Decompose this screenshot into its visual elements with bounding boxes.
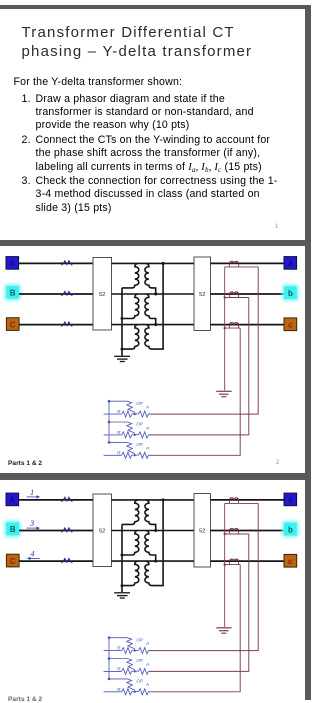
wire relay row a s3 — [104, 650, 122, 652]
wire phase C left s2 — [19, 324, 93, 326]
slide frame top bar — [0, 5, 311, 9]
wire relay OP stub b s3 — [109, 658, 127, 660]
svg-text:OP: OP — [136, 401, 142, 406]
terminal B bus s2 — [4, 284, 21, 301]
CT wye-side phase A s3 — [62, 497, 73, 502]
svg-text:R: R — [117, 450, 121, 456]
slide 2 page number — [276, 460, 279, 466]
terminal C bus s3 — [6, 554, 19, 567]
wire phase b right s3 — [211, 530, 285, 532]
svg-text:R: R — [146, 446, 149, 451]
wire phase a right s3 — [211, 499, 285, 501]
node relay OP bus a s2 — [108, 400, 111, 403]
wire CT b lead to relay s3 — [150, 534, 249, 671]
restraint coil R right a s3 — [138, 648, 150, 654]
svg-text:A: A — [9, 496, 15, 505]
terminal b bus s2 — [282, 284, 299, 301]
terminal b bus s3 — [282, 521, 299, 538]
wire arrow current 4 (reversed) — [27, 557, 40, 560]
CT wye-side phase C s2 — [62, 322, 73, 327]
wire phase C middle s3 — [112, 560, 195, 562]
winding wye phase C s3 — [122, 561, 139, 586]
operate coil OP c s3 — [127, 679, 135, 692]
wire phase A left s3 — [19, 499, 93, 501]
restraint coil R right b s3 — [138, 668, 150, 674]
svg-text:c: c — [288, 557, 293, 566]
ground wye neutral s3 — [114, 593, 130, 598]
wire phase A left s2 — [19, 262, 93, 264]
svg-text:OP: OP — [136, 442, 142, 447]
node CT common c junction s2 — [224, 327, 226, 329]
svg-text:R: R — [146, 641, 149, 646]
node wye neutral B junction s2 — [121, 317, 124, 320]
restraint coil R left b s3 — [122, 668, 132, 674]
slide 1 item 3 — [22, 175, 31, 188]
wire CT c lead to relay s2 — [150, 328, 241, 455]
node relay OP bus a s3 — [108, 636, 111, 639]
ground wye neutral s2 — [114, 356, 130, 361]
wire CT common return s2 — [224, 267, 226, 391]
wire CT common return s3 — [224, 503, 226, 627]
wire relay row b s2 — [104, 434, 122, 436]
wire CT a lead to relay s2 — [150, 267, 259, 414]
wire relay row mid b s3 — [132, 670, 139, 672]
winding wye phase A s2 — [122, 263, 139, 288]
wire arrow current 1 — [27, 495, 40, 498]
wire CT a lead to relay s3 — [150, 503, 259, 650]
wire relay OP stub c s3 — [109, 678, 127, 680]
node delta c-A junction s3 — [162, 498, 165, 501]
slide frame bar between slide 2 and 3 — [0, 473, 311, 479]
node delta a-b junction s2 — [154, 293, 157, 296]
node wye neutral C junction s2 — [121, 348, 124, 351]
winding delta c (C-A) s2 — [145, 263, 163, 349]
svg-text:52: 52 — [199, 529, 205, 535]
wire relay row b s3 — [104, 670, 122, 672]
svg-text:R: R — [117, 646, 121, 652]
svg-text:c: c — [288, 321, 293, 330]
slide frame right bar — [305, 5, 311, 700]
node relay OP bus c s3 — [108, 678, 111, 681]
wire relay OP bus s3 — [108, 638, 110, 679]
CT wye-side phase B s2 — [62, 291, 73, 296]
wire phase c right s3 — [211, 560, 285, 562]
svg-text:R: R — [117, 666, 121, 672]
svg-text:3: 3 — [29, 518, 34, 528]
slide 3 caption sliver — [8, 696, 42, 703]
node relay OP bus b s2 — [108, 421, 111, 424]
wire CT b lead to relay s2 — [150, 298, 249, 435]
wire CT a secondary shoulder s3 — [225, 501, 259, 504]
slide 1 page number — [275, 224, 278, 230]
wire relay row mid a s2 — [132, 413, 139, 415]
restraint coil R right b s2 — [138, 432, 150, 438]
restraint coil R left a s3 — [122, 648, 132, 654]
svg-text:OP: OP — [136, 422, 142, 427]
svg-text:OP: OP — [136, 658, 142, 663]
svg-text:R: R — [146, 405, 149, 410]
node relay OP bus b s3 — [108, 657, 111, 660]
CT delta-side phase a s2 — [229, 261, 238, 263]
svg-text:52: 52 — [199, 292, 205, 298]
wire relay row mid b s2 — [132, 434, 139, 436]
node relay OP tap a s2 — [134, 413, 136, 415]
operate coil OP b s3 — [127, 659, 135, 672]
ground CT common s3 — [216, 628, 231, 633]
wire relay row a s2 — [104, 413, 122, 415]
wire phase a right s2 — [211, 262, 285, 264]
wire CT b secondary shoulder s2 — [225, 295, 249, 298]
wire CT a secondary shoulder s2 — [225, 264, 259, 267]
wire relay row mid c s2 — [132, 454, 139, 456]
node delta a-b junction s3 — [154, 529, 157, 532]
svg-text:OP: OP — [136, 679, 142, 684]
wire relay OP stub a s2 — [109, 400, 127, 402]
operate coil OP b s2 — [127, 422, 135, 435]
wire phase A middle s3 — [112, 499, 195, 501]
CT delta-side phase b s3 — [229, 528, 238, 530]
CT delta-side phase c s3 — [229, 559, 238, 561]
CT delta-side phase c s2 — [229, 323, 238, 325]
svg-text:R: R — [146, 425, 149, 430]
node relay OP tap b s3 — [134, 670, 136, 672]
restraint coil R left c s2 — [122, 452, 132, 458]
breaker 52 right s3 — [194, 494, 211, 568]
wire CT c lead to relay s3 — [150, 565, 241, 692]
restraint coil R left b s2 — [122, 432, 132, 438]
operate coil OP c s2 — [127, 442, 135, 455]
svg-text:R: R — [117, 687, 121, 693]
CT wye-side phase B s3 — [62, 528, 73, 533]
CT delta-side phase a s3 — [229, 498, 238, 500]
restraint coil R left c s3 — [122, 689, 132, 695]
ground CT common s2 — [216, 391, 231, 396]
svg-text:B: B — [10, 289, 16, 298]
winding wye phase A s3 — [122, 500, 139, 525]
node relay OP tap c s3 — [134, 691, 136, 693]
wire phase A middle s2 — [112, 262, 195, 264]
restraint coil R right c s2 — [138, 452, 150, 458]
wire phase C middle s2 — [112, 324, 195, 326]
winding wye phase B s2 — [122, 294, 139, 319]
node relay OP tap b s2 — [134, 434, 136, 436]
svg-text:52: 52 — [99, 292, 105, 298]
wire CT b secondary shoulder s3 — [225, 531, 249, 534]
operate coil OP a s3 — [127, 638, 135, 651]
slide 1 intro line — [14, 76, 183, 89]
winding wye phase B s3 — [122, 531, 139, 556]
wire wye neutral s3 — [121, 524, 123, 592]
terminal a bus s2 — [284, 257, 297, 270]
svg-text:R: R — [146, 682, 149, 687]
slide 2 caption — [8, 460, 42, 467]
node relay OP tap a s3 — [134, 650, 136, 652]
wire relay row c s3 — [104, 691, 122, 693]
svg-text:R: R — [117, 409, 121, 415]
breaker 52 left s2 — [93, 258, 112, 331]
operate coil OP a s2 — [127, 401, 135, 414]
restraint coil R right a s2 — [138, 411, 150, 417]
wire phase B middle s2 — [112, 293, 195, 295]
node CT common b junction s2 — [224, 296, 226, 298]
node delta b-c junction s2 — [154, 323, 157, 326]
terminal A bus s3 — [6, 493, 19, 506]
CT delta-side phase b s2 — [229, 292, 238, 294]
node wye neutral C junction s3 — [121, 584, 124, 587]
svg-text:OP: OP — [136, 637, 142, 642]
breaker 52 right s2 — [194, 257, 211, 331]
svg-text:b: b — [288, 525, 293, 534]
slide frame bar between slide 1 and 2 — [0, 240, 311, 246]
svg-text:a: a — [288, 496, 293, 505]
wire wye neutral s2 — [121, 288, 123, 356]
node relay OP bus c s2 — [108, 441, 111, 444]
svg-text:52: 52 — [99, 529, 105, 535]
terminal C bus s2 — [6, 318, 19, 331]
wire relay OP bus s2 — [108, 401, 110, 442]
wire relay OP stub a s3 — [109, 637, 127, 639]
restraint coil R right c s3 — [138, 689, 150, 695]
node CT common b junction s3 — [224, 533, 226, 535]
terminal c bus s2 — [284, 318, 297, 331]
winding delta b (B-C) s3 — [145, 531, 156, 562]
terminal B bus s3 — [4, 520, 21, 537]
node relay OP tap c s2 — [134, 454, 136, 456]
wire relay OP stub b s2 — [109, 421, 127, 423]
CT wye-side phase C s3 — [62, 559, 73, 564]
wire relay OP stub c s2 — [109, 441, 127, 443]
slide 1 title — [22, 23, 253, 61]
node CT common c junction s3 — [224, 563, 226, 565]
wire CT c secondary shoulder s2 — [225, 325, 241, 328]
winding wye phase C s2 — [122, 325, 139, 350]
wire phase C left s3 — [19, 560, 93, 562]
wire phase c right s2 — [211, 324, 285, 326]
winding delta a (A-B) s3 — [145, 500, 156, 531]
wire relay row mid a s3 — [132, 649, 139, 651]
node wye neutral B junction s3 — [121, 554, 124, 557]
svg-text:A: A — [9, 259, 15, 268]
wire relay row c s2 — [104, 454, 122, 456]
slide 1 item 1 — [22, 93, 31, 106]
winding delta b (B-C) s2 — [145, 294, 156, 325]
wire CT c secondary shoulder s3 — [225, 562, 241, 565]
terminal a bus s3 — [284, 493, 297, 506]
node delta b-c junction s3 — [154, 560, 157, 563]
wire relay row mid c s3 — [132, 691, 139, 693]
CT wye-side phase A s2 — [62, 261, 73, 266]
svg-text:1: 1 — [30, 487, 34, 497]
wire arrow current 3 — [27, 527, 40, 530]
breaker 52 left s3 — [93, 494, 112, 567]
wire phase B left s2 — [19, 293, 93, 295]
winding delta a (A-B) s2 — [145, 263, 156, 294]
wire phase b right s2 — [211, 293, 285, 295]
wire phase B left s3 — [19, 530, 93, 532]
svg-text:B: B — [10, 525, 16, 534]
slide 1 item 2 — [22, 134, 31, 147]
svg-text:R: R — [146, 662, 149, 667]
svg-text:a: a — [288, 259, 293, 268]
svg-text:R: R — [117, 430, 121, 436]
svg-text:4: 4 — [30, 548, 35, 558]
svg-text:b: b — [288, 289, 293, 298]
winding delta c (C-A) s3 — [145, 500, 163, 586]
restraint coil R left a s2 — [122, 411, 132, 417]
wire phase B middle s3 — [112, 530, 195, 532]
svg-text:C: C — [10, 557, 16, 566]
terminal A bus s2 — [6, 257, 19, 270]
terminal c bus s3 — [284, 554, 297, 567]
node delta c-A junction s2 — [162, 262, 165, 265]
svg-text:C: C — [10, 320, 16, 329]
